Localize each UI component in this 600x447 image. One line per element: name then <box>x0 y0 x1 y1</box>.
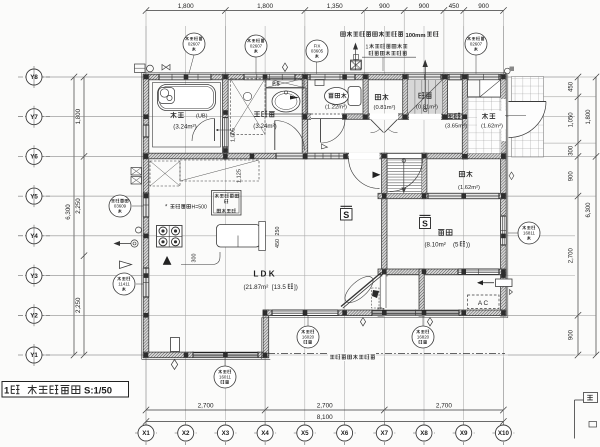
svg-text:X2: X2 <box>182 430 190 437</box>
open triangle left <box>120 261 132 269</box>
shoe cabinet <box>480 80 501 97</box>
svg-text:900: 900 <box>419 3 430 10</box>
svg-text:2,700: 2,700 <box>569 248 575 264</box>
kitchen stove <box>157 226 183 248</box>
door opening washroom <box>276 153 305 160</box>
svg-text:)): )) <box>466 242 470 249</box>
entrance label <box>477 111 506 129</box>
washroom label <box>254 112 260 117</box>
window label circle bottom 3 <box>224 358 226 366</box>
svg-text:1: 1 <box>4 386 10 397</box>
toilet bowl <box>325 88 349 105</box>
svg-text:(8.10m²: (8.10m² <box>425 242 446 249</box>
window top washroom <box>244 74 295 81</box>
entrance door swing <box>509 102 547 138</box>
svg-text:1,800: 1,800 <box>75 108 82 124</box>
wall Y5 under oshiire <box>378 193 506 198</box>
exterior wall bottom-right Y2 <box>263 310 506 316</box>
svg-text:X9: X9 <box>460 430 468 437</box>
svg-text:2,250: 2,250 <box>75 198 82 214</box>
window label circle tatesuberi 1 <box>189 55 194 74</box>
svg-text:Y2: Y2 <box>30 313 38 320</box>
washitsu/LDK opening <box>382 275 386 309</box>
posts <box>144 75 149 80</box>
hall label <box>447 114 453 119</box>
LDK hall door <box>349 158 380 189</box>
toilet door <box>320 119 322 143</box>
monoire label <box>375 95 380 100</box>
bath faucet <box>158 85 216 111</box>
opening stair bottom <box>409 114 441 120</box>
diamond below bottom wall <box>360 318 365 326</box>
washing machine pan <box>231 79 266 135</box>
svg-text:(21.87m²: (21.87m² <box>244 284 269 291</box>
porch tiles <box>512 77 544 158</box>
wall X3 bath/washroom <box>223 74 229 159</box>
sliding opening hall/LDK <box>307 153 347 160</box>
toilet tank <box>348 87 361 106</box>
toilet label <box>328 93 333 98</box>
stair label <box>419 93 424 99</box>
svg-text:(1.62m²): (1.62m²) <box>458 185 480 191</box>
kitchen arrow <box>163 256 171 265</box>
svg-text:A C: A C <box>478 300 489 307</box>
svg-text:(0.81m²): (0.81m²) <box>374 105 396 111</box>
bath room label <box>171 112 177 118</box>
window left LDK <box>143 268 150 297</box>
note arrow <box>355 46 357 70</box>
svg-text:16020: 16020 <box>302 335 315 340</box>
left dimension lines <box>83 77 85 355</box>
svg-text:]): ]) <box>294 284 298 291</box>
svg-text:2,700: 2,700 <box>317 403 333 410</box>
svg-text:300: 300 <box>192 254 198 263</box>
svg-text:900: 900 <box>569 329 575 340</box>
window left kitchen <box>143 193 150 217</box>
window top bath <box>159 74 211 81</box>
window top stair <box>408 74 441 81</box>
window label circle agesage <box>132 205 143 207</box>
wall X8 oshiire left <box>422 153 427 199</box>
svg-text:250: 250 <box>275 227 281 236</box>
black triangle kitchen <box>163 257 171 265</box>
door marker bottom-left wall <box>171 338 180 352</box>
kitchen floor corner line <box>181 252 220 265</box>
legend fragment bottom right <box>574 400 576 439</box>
wall toilet/closet <box>363 74 368 119</box>
wall X5 washroom/toilet <box>302 74 308 159</box>
entrance tile floor <box>468 97 501 153</box>
range hood dashed <box>150 161 180 186</box>
wall lower strip divider X8 <box>419 269 424 316</box>
left arrow faucet <box>115 243 131 245</box>
svg-text:(UB): (UB) <box>196 114 208 120</box>
svg-text:X4: X4 <box>261 430 269 437</box>
svg-text:6,300: 6,300 <box>65 204 72 220</box>
stair up arrow <box>424 64 426 110</box>
svg-text:03609: 03609 <box>114 204 127 209</box>
X grid bubbles X1-X10 <box>145 421 147 445</box>
washitsu south window <box>458 269 499 276</box>
svg-text:450: 450 <box>275 239 281 248</box>
window right washitsu <box>500 216 507 245</box>
exterior wall step X4 <box>263 310 269 358</box>
fan louver left wall <box>131 168 142 176</box>
svg-text:02607: 02607 <box>188 42 201 47</box>
svg-text:L D K: L D K <box>253 270 274 279</box>
svg-text:1,800: 1,800 <box>257 3 273 10</box>
svg-text:16811: 16811 <box>523 231 535 236</box>
washitsu door diagonal <box>379 274 381 308</box>
svg-text:Y6: Y6 <box>30 154 38 161</box>
wall Y7 toilet row bottom <box>302 114 469 119</box>
window top hall strip <box>449 74 461 81</box>
svg-text:03605: 03605 <box>311 49 324 54</box>
svg-text:P.S: P.S <box>272 82 280 88</box>
diamond below bottom wall 2 <box>427 318 432 326</box>
svg-text:2,250: 2,250 <box>75 297 82 313</box>
svg-text:(1.22m²): (1.22m²) <box>325 105 347 111</box>
wall stair/hall strip <box>442 74 447 119</box>
window left bath <box>143 125 150 137</box>
svg-text:Y5: Y5 <box>30 193 38 200</box>
svg-text:S: S <box>343 210 349 220</box>
diamond below bottom-left wall <box>171 360 177 370</box>
svg-text:(3.24m²): (3.24m²) <box>173 124 196 131</box>
svg-text:X6: X6 <box>341 430 349 437</box>
wall washitsu south <box>378 269 506 275</box>
window bottom-right 2 sliding <box>372 310 459 316</box>
svg-text:16011: 16011 <box>219 375 231 380</box>
bowtie vent top <box>162 65 170 71</box>
svg-text:(3.65m²): (3.65m²) <box>445 124 467 130</box>
svg-text:Y1: Y1 <box>30 352 38 359</box>
bottom dimension lines <box>146 409 503 411</box>
svg-text:6,300: 6,300 <box>586 202 592 218</box>
svg-text:Y3: Y3 <box>30 273 38 280</box>
Y grid bubbles Y1-Y8 <box>18 76 50 78</box>
svg-text:1,350: 1,350 <box>327 3 343 10</box>
toilet paper holder <box>315 80 324 86</box>
svg-text:450: 450 <box>569 81 575 92</box>
window label circle tatesuberi 2 <box>255 57 257 74</box>
lower stair treads <box>387 159 421 193</box>
washitsu label <box>438 229 444 235</box>
window label circle entrance <box>475 55 477 74</box>
monoire double doors <box>371 119 384 132</box>
svg-text:Y7: Y7 <box>30 114 38 121</box>
wall X7 LDK/stairs+washitsu <box>382 153 387 276</box>
diamond top PS <box>282 63 287 71</box>
svg-text:2,700: 2,700 <box>198 403 214 410</box>
grid lines <box>42 26 575 420</box>
stair door arc <box>390 159 423 192</box>
svg-text:100mm: 100mm <box>406 33 426 39</box>
entrance door opening right wall <box>501 99 506 141</box>
small circle on left wall <box>136 227 142 233</box>
exterior wall top <box>143 74 506 80</box>
svg-text:1,050: 1,050 <box>569 112 575 128</box>
bath unit inner outline <box>153 83 221 148</box>
svg-text:02607: 02607 <box>470 42 483 47</box>
door opening toilet <box>311 114 342 120</box>
svg-text:02607: 02607 <box>250 44 263 49</box>
svg-text:(3.24m²): (3.24m²) <box>253 123 276 130</box>
svg-text:S: S <box>422 219 428 229</box>
svg-text:900: 900 <box>569 171 575 182</box>
note line3 <box>369 51 373 55</box>
svg-text:300: 300 <box>569 145 575 156</box>
window bottom-left Y1 <box>193 352 258 358</box>
svg-text:900: 900 <box>379 3 390 10</box>
exterior wall right <box>501 74 507 316</box>
small square right wall top <box>510 67 515 72</box>
svg-text:S:1/50: S:1/50 <box>84 386 112 397</box>
door opening closet double <box>370 114 398 120</box>
wall closet/stair <box>403 74 408 119</box>
meter box top-left <box>135 64 146 73</box>
washroom door <box>274 121 276 151</box>
wall X7 stub lower <box>378 308 383 316</box>
S symbol LDK <box>341 209 353 221</box>
balcony label <box>328 353 376 362</box>
svg-text:1,005: 1,005 <box>231 128 237 142</box>
svg-text:Y8: Y8 <box>30 74 38 81</box>
note line1 <box>341 32 346 36</box>
wall vent arrow <box>496 279 513 287</box>
title box <box>2 382 129 398</box>
exterior wall left <box>143 74 149 358</box>
svg-text:X3: X3 <box>222 430 230 437</box>
stair doorway opening Y6 <box>388 153 422 159</box>
washroom arrow <box>290 96 299 100</box>
svg-text:8,100: 8,100 <box>317 414 333 421</box>
svg-text:16820: 16820 <box>417 335 430 340</box>
window label circle bottom 1 <box>307 316 309 326</box>
window label circle bottom 2 <box>422 316 424 326</box>
balcony above dash line <box>268 353 505 355</box>
PS pipe space <box>266 79 304 88</box>
S symbol washitsu <box>420 218 431 229</box>
window top entrance <box>468 74 499 81</box>
wall hall/entrance X9 <box>462 74 467 159</box>
window label circle hikichigai right <box>508 232 518 234</box>
wash basin counter <box>266 88 306 114</box>
oshiire label <box>459 172 464 177</box>
svg-text:1,800: 1,800 <box>586 109 592 125</box>
oshiire sliding doors <box>428 193 499 199</box>
svg-text:450: 450 <box>449 3 460 10</box>
exterior skin lines <box>142 72 507 74</box>
stair center line <box>403 158 405 192</box>
wall Y6 horizontal <box>143 153 506 159</box>
window top toilet FIX <box>310 74 355 81</box>
AC unit <box>468 295 500 309</box>
svg-text:X8: X8 <box>420 430 428 437</box>
window label circle hikichigai left <box>136 283 143 285</box>
overhead cabinet dashed <box>180 160 259 181</box>
svg-text:Y4: Y4 <box>30 233 38 240</box>
exterior wall bottom-left Y1 <box>143 352 269 358</box>
svg-text:X10: X10 <box>498 430 510 437</box>
svg-text:(1.62m²): (1.62m²) <box>481 124 503 130</box>
svg-text:1: 1 <box>366 45 369 51</box>
window bottom-right 1 <box>272 310 338 317</box>
svg-text:1,125: 1,125 <box>237 169 243 183</box>
small diamond right wall <box>509 172 514 180</box>
svg-text:11411: 11411 <box>118 282 130 287</box>
svg-text:[13.5: [13.5 <box>272 284 286 291</box>
top dimension line <box>146 10 504 12</box>
bath door opening X3 <box>222 118 229 148</box>
svg-text:900: 900 <box>478 3 489 10</box>
svg-text:H=500: H=500 <box>192 205 208 211</box>
toilet fan symbol <box>351 60 362 69</box>
svg-text:1,800: 1,800 <box>178 3 194 10</box>
svg-text:X7: X7 <box>381 430 389 437</box>
hook marker hall <box>322 144 328 149</box>
svg-text:2,700: 2,700 <box>436 403 452 410</box>
svg-text:(0.81m²): (0.81m²) <box>416 105 438 111</box>
svg-text:X1: X1 <box>142 430 150 437</box>
svg-text:X5: X5 <box>301 430 309 437</box>
svg-text:(5: (5 <box>453 242 459 249</box>
floor access box <box>212 191 242 216</box>
bath door <box>214 119 216 142</box>
right dimension lines <box>577 77 579 355</box>
stair room shading <box>408 80 442 114</box>
door opening LDK/hall <box>349 153 380 160</box>
window label circle FIX <box>316 62 318 74</box>
kitchen counter <box>217 225 261 248</box>
